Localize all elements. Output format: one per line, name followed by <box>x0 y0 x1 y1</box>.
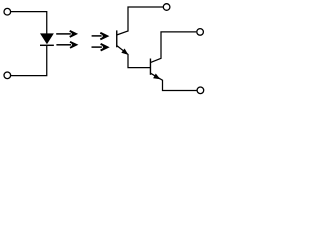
Q2 collector wire to middle-right terminal <box>151 32 197 63</box>
transistor Q2 base bar <box>149 59 151 75</box>
Q1 collector wire to top-right terminal <box>117 7 163 35</box>
LED D1 (triangle, anode down) <box>40 33 54 44</box>
wire anode: top-left terminal to LED top <box>11 12 47 34</box>
light arrow 2 (emitted, lower) <box>56 42 76 48</box>
terminal pin 1 (LED anode, top-left) <box>4 8 11 15</box>
LED cathode bar <box>40 44 54 46</box>
light arrow 4 (received, lower) <box>92 44 108 51</box>
terminal (Q2 emitter, bottom-right) <box>197 87 204 94</box>
Q1 emitter wire to Q2 base <box>117 46 150 68</box>
terminal (Q1 collector, top-right) <box>163 4 170 11</box>
Q2 emitter wire to bottom-right terminal <box>151 73 197 90</box>
terminal pin 2 (LED cathode, bottom-left) <box>4 72 11 79</box>
terminal (Q2 collector, middle-right) <box>197 29 204 36</box>
wire cathode: LED bottom to bottom-left terminal <box>11 46 47 76</box>
transistor Q1 base bar <box>116 30 118 47</box>
light arrow 3 (received, upper) <box>92 33 108 40</box>
Q2 emitter arrowhead <box>153 74 160 80</box>
Q1 emitter arrowhead <box>121 49 128 55</box>
light arrow 1 (emitted, upper) <box>56 31 76 37</box>
